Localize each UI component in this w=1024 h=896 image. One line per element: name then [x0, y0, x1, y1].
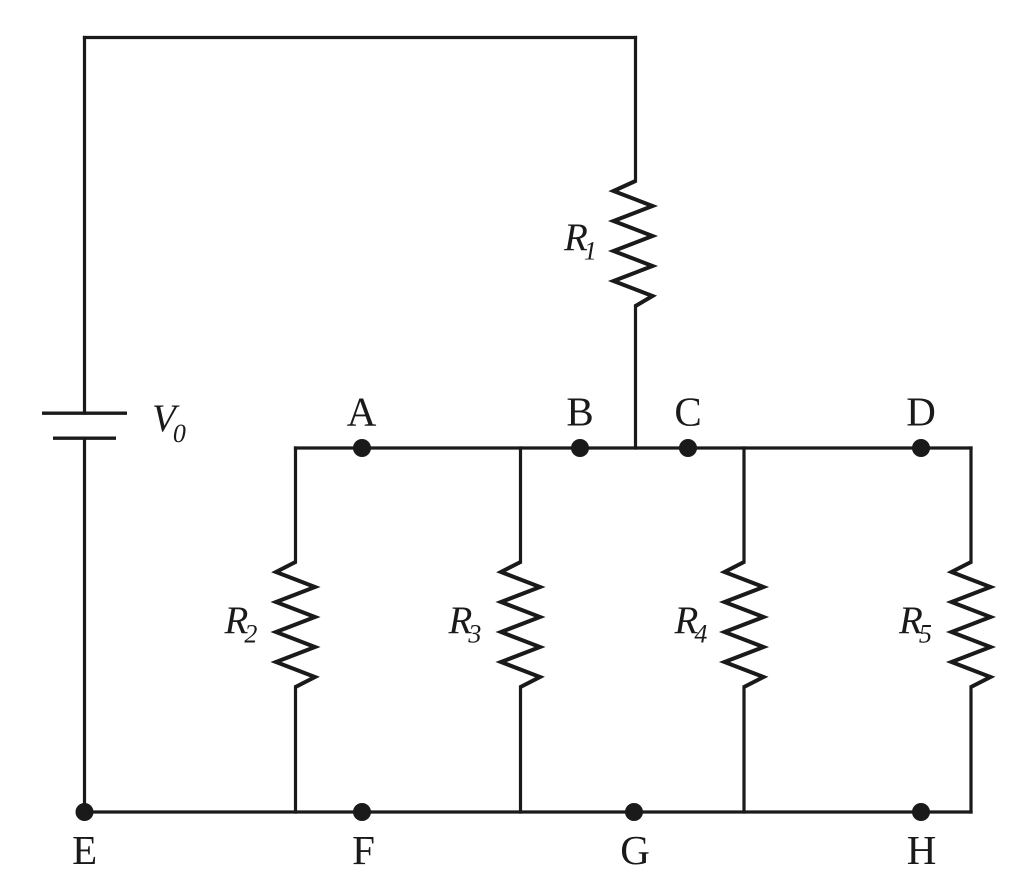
wire: top bus right end down to R5	[969, 448, 972, 562]
resistor R1	[614, 181, 653, 306]
wire: R5 bottom to bottom bus	[969, 687, 972, 812]
wire: top bus to R4	[742, 448, 745, 562]
svg-text:H: H	[907, 827, 937, 873]
resistor R2	[276, 562, 315, 687]
node F junction dot	[353, 803, 371, 821]
wire: bottom bus E-F-G-H	[85, 810, 972, 813]
resistor R5	[952, 562, 991, 687]
node B junction dot	[571, 439, 589, 457]
wire: R1 bottom to top bus (between B and C)	[634, 306, 637, 448]
svg-text:G: G	[620, 827, 650, 873]
wire: R4 bottom to bottom bus	[742, 687, 745, 812]
node G junction dot	[625, 803, 643, 821]
wire: top horizontal run	[85, 36, 636, 39]
battery V0	[42, 413, 127, 438]
node D junction dot	[912, 439, 930, 457]
svg-text:B: B	[566, 389, 593, 435]
resistor R4	[725, 562, 764, 687]
wire: R2 bottom to bottom bus	[294, 687, 297, 812]
svg-text:E: E	[72, 827, 97, 873]
svg-text:C: C	[674, 389, 701, 435]
wire: top bus to R3	[519, 448, 522, 562]
svg-text:F: F	[352, 827, 375, 873]
node E junction dot	[76, 803, 94, 821]
svg-text:D: D	[906, 389, 936, 435]
node A junction dot	[353, 439, 371, 457]
wire: battery negative terminal down to node E	[83, 438, 86, 812]
resistor R3	[501, 562, 540, 687]
wire: R3 bottom to bottom bus	[519, 687, 522, 812]
wire: battery positive terminal up the left side	[83, 38, 86, 414]
node C junction dot	[679, 439, 697, 457]
node H junction dot	[912, 803, 930, 821]
wire: top bus A-B-C-D	[296, 446, 972, 449]
wire: top bus to R2	[294, 448, 297, 562]
wire: right vertical down to R1	[634, 38, 637, 182]
svg-text:A: A	[347, 389, 377, 435]
